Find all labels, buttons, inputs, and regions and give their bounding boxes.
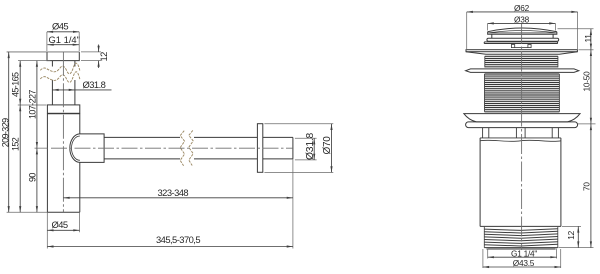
drain tail bottom: [484, 248, 558, 249]
svg-text:Ø31.8: Ø31.8: [305, 132, 316, 160]
bottle body right wall upper: [79, 114, 81, 134]
dimension 323-348 line: [63, 197, 293, 199]
drain upper thread flanks: [485, 56, 558, 67]
extension line pipe axis left: [35, 147, 48, 149]
svg-text:209-329: 209-329: [0, 118, 10, 147]
extension line pipe end down: [292, 159, 294, 249]
dimension D43.5 arrows: [483, 266, 561, 268]
extension line flange bottom right: [264, 171, 333, 173]
extension line tail bottom right side: [559, 247, 594, 249]
dimension 323-348 arrows: [63, 197, 293, 199]
extension line flange top right: [264, 123, 333, 125]
elbow inner contour: [72, 136, 80, 160]
extension line flange bottom left: [18, 60, 50, 62]
dimension 11 arrows: [590, 29, 592, 50]
dimension 152 line: [19, 105, 21, 212]
extension line pipe end top right: [295, 137, 317, 139]
drain body left wall: [479, 138, 481, 227]
drain body bottom edge: [480, 225, 561, 227]
extension line cap top right: [558, 28, 594, 30]
svg-text:10-50: 10-50: [581, 71, 591, 92]
svg-text:Ø43.5: Ø43.5: [513, 258, 535, 268]
drain main thread lines: [485, 74, 560, 112]
dimension D62 extension lines: [467, 12, 578, 49]
outlet pipe top wall left of break: [104, 136, 180, 138]
dimension G1 1/4 top line: [48, 44, 79, 46]
inlet flange top: [47, 52, 79, 61]
dimension 70 arrows: [590, 124, 592, 248]
extension lines D43.5: [483, 249, 561, 268]
extension lines G1 1/4 bottom: [488, 249, 557, 259]
dimension 12 arrows: [98, 46, 100, 67]
centerline outlet pipe horizontal: [51, 147, 293, 149]
bottle body left wall: [46, 114, 48, 213]
drain posts: [483, 128, 559, 138]
outlet pipe end cap: [292, 137, 294, 159]
drain tail thread lines: [484, 229, 558, 246]
drain body wavy top: [480, 140, 561, 141]
centerline bottle vertical: [62, 52, 64, 213]
svg-text:11: 11: [583, 34, 593, 43]
dimension 107-227 arrows: [36, 61, 38, 149]
extension line pipe end bottom right: [295, 159, 317, 161]
drain cap dome rim: [488, 32, 557, 35]
svg-text:70: 70: [581, 182, 591, 191]
extension line bottle right wall down: [79, 212, 81, 232]
svg-text:90: 90: [27, 173, 37, 182]
dimension D45 top arrows: [47, 31, 79, 33]
svg-text:107-227: 107-227: [27, 90, 37, 119]
svg-text:Ø45: Ø45: [52, 21, 68, 32]
dimension D38 line: [488, 22, 556, 24]
elbow outlet block: [70, 134, 104, 163]
dimension 209-329 arrows: [8, 52, 10, 212]
dimension 12 leader lines: [98, 45, 100, 69]
drain bowl flange: [464, 114, 580, 122]
drain body right wall: [560, 138, 562, 227]
break symbol outlet pipe right zigzag: [189, 130, 193, 165]
drain cap lug bridge: [515, 47, 528, 49]
dimension D45 bottom line: [47, 229, 79, 231]
break symbol inlet pipe upper zigzag: [40, 63, 80, 74]
svg-text:G1 1/4": G1 1/4": [49, 34, 80, 45]
drain main thread flanks: [485, 74, 560, 112]
svg-text:45-165: 45-165: [11, 72, 21, 97]
dimension 45-165 line: [19, 61, 21, 105]
dimension D70 line: [331, 124, 333, 173]
dimension 11 line: [590, 29, 592, 50]
dimension D31.8 end line: [313, 138, 315, 160]
dimension 90 arrows: [36, 148, 38, 212]
dimension D31.8 inlet arrows: [52, 89, 75, 91]
svg-text:Ø70: Ø70: [322, 136, 333, 155]
drain cap lug left: [511, 45, 514, 48]
dimension 152 arrows: [19, 105, 21, 212]
outlet pipe end segment top: [263, 136, 293, 138]
dimension D45 top line: [47, 31, 79, 33]
dimension G1 1/4 bottom arrows: [488, 256, 557, 258]
dimension G1 1/4 top arrows: [48, 44, 79, 46]
drain cap dome outer arc: [488, 28, 557, 32]
bottle body right wall lower: [79, 162, 81, 212]
dimension 10-50 arrows: [590, 50, 592, 124]
bottle bottom: [47, 211, 79, 213]
dimension G1 1/4 bottom line: [488, 256, 557, 258]
drain body shoulder line: [480, 137, 561, 139]
wall flange escutcheon: [257, 124, 262, 173]
drain tail thread flanks: [484, 227, 558, 248]
dimension D45 top extension lines: [47, 32, 79, 51]
drain seal washer: [466, 69, 579, 73]
svg-text:Ø38: Ø38: [514, 14, 530, 24]
extension line bottle bottom left: [7, 211, 48, 213]
dimension D70 arrows: [330, 124, 332, 173]
dimension 345.5-370.5 line: [47, 246, 293, 248]
drain top flange slab: [466, 50, 577, 52]
drain bottom band: [466, 122, 578, 128]
dimension 345.5-370.5 arrows: [47, 245, 293, 247]
dimension 12 tail arrows: [577, 226, 579, 247]
dimension D38 extension lines: [488, 24, 556, 31]
drain cap washer band 1: [487, 38, 559, 41]
outlet pipe top wall right of break: [194, 136, 257, 138]
svg-text:12: 12: [98, 52, 109, 62]
dimension D45 bottom arrows: [47, 229, 79, 231]
svg-text:12: 12: [566, 230, 576, 239]
dimension D43.5 line: [483, 266, 561, 268]
svg-text:G1 1/4": G1 1/4": [511, 248, 537, 258]
drain cap dome inner arc: [490, 31, 556, 33]
bottle nut bottom edge: [47, 113, 79, 115]
svg-text:Ø31.8: Ø31.8: [83, 79, 106, 90]
dimension D38 arrows: [488, 22, 556, 24]
dimension 12 tail line: [577, 226, 579, 247]
break symbol inlet pipe lower zigzag: [40, 72, 80, 83]
dimension 209-329 line: [8, 52, 10, 212]
drain cap washer band 2: [484, 42, 557, 44]
dimension 12 extension lines: [81, 52, 101, 61]
dimension 10-50 line: [590, 50, 592, 124]
dimension 45-165 arrows: [19, 61, 21, 105]
drain top flange chamfer: [466, 52, 577, 55]
svg-text:Ø45: Ø45: [52, 219, 68, 230]
extension line flange top right side: [579, 49, 594, 51]
centerline drain vertical: [521, 24, 523, 250]
inlet pipe upper segment: [52, 61, 75, 67]
dimension 107-227 line: [36, 61, 38, 149]
extension line bottle left wall down: [46, 212, 48, 248]
svg-text:345,5-370,5: 345,5-370,5: [156, 234, 200, 245]
dimension D31.8 end arrows: [313, 138, 315, 160]
break symbol outlet pipe left zigzag: [180, 131, 184, 166]
dimension 90 line: [36, 148, 38, 212]
inlet pipe lower segment: [52, 80, 75, 105]
drain cap neck: [492, 34, 553, 38]
dimension 70 line: [590, 124, 592, 248]
drain cap lug right: [528, 45, 531, 48]
extension line tail top right: [562, 225, 581, 227]
dimension D62 arrows: [467, 11, 578, 13]
dimension D31.8 inlet line: [52, 89, 111, 91]
extension line band right side: [578, 123, 596, 125]
svg-text:323-348: 323-348: [158, 187, 189, 198]
dimension D62 line: [467, 11, 578, 13]
extension line nut top left: [18, 104, 47, 106]
outlet pipe bottom wall left of break: [104, 158, 180, 160]
outlet pipe end segment bottom: [263, 158, 293, 160]
svg-text:Ø62: Ø62: [514, 3, 530, 13]
drain upper thread lines: [485, 56, 558, 67]
bottle nut: [47, 105, 79, 114]
outlet pipe bottom wall right of break: [194, 158, 257, 160]
svg-text:152: 152: [11, 137, 21, 151]
extension line flange top left: [7, 51, 80, 53]
